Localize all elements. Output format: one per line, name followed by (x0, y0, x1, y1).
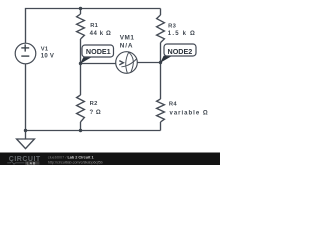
svg-text:1.5 k Ω: 1.5 k Ω (168, 31, 196, 37)
svg-text:? Ω: ? Ω (90, 110, 102, 116)
svg-text:NODE1: NODE1 (86, 47, 111, 56)
svg-text:NODE2: NODE2 (168, 47, 193, 56)
svg-text:R3: R3 (168, 23, 176, 29)
svg-text:44 k Ω: 44 k Ω (90, 31, 112, 37)
svg-text:R4: R4 (169, 101, 177, 107)
svg-text:http://circuitlab.com/c/8kabp6: http://circuitlab.com/c/8kabp6qf5b (48, 160, 103, 164)
svg-text:V1: V1 (41, 47, 49, 53)
svg-text:variable Ω: variable Ω (170, 110, 209, 116)
svg-text:N/A: N/A (120, 43, 134, 50)
svg-text:VM1: VM1 (120, 35, 135, 42)
svg-text:cluebt007 / Lab 2 Circuit 1: cluebt007 / Lab 2 Circuit 1 (48, 155, 94, 159)
svg-text:LAB: LAB (27, 161, 37, 165)
svg-text:10 V: 10 V (41, 54, 55, 60)
svg-text:R2: R2 (90, 101, 98, 107)
svg-text:R1: R1 (90, 23, 98, 29)
